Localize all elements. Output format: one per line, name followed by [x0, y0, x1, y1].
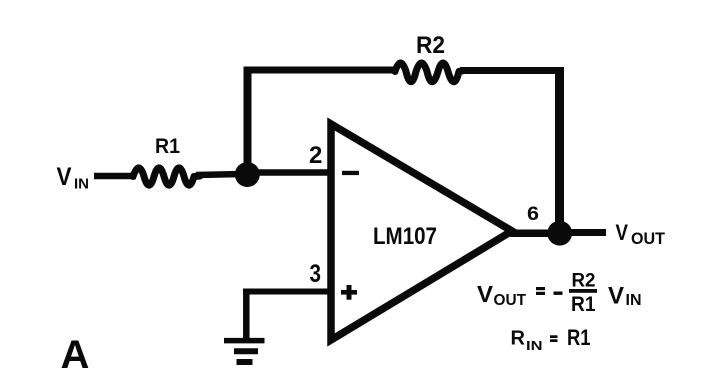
- wire input to R1: [94, 173, 136, 180]
- output junction node: [547, 221, 572, 246]
- resistor R2: [395, 32, 462, 82]
- wire op-amp output to node: [510, 229, 556, 237]
- inverting input marker (minus): [342, 171, 359, 175]
- formula gain equation V_OUT = -R2/R1 V_IN: [477, 271, 642, 317]
- svg-text:R1: R1: [155, 135, 180, 158]
- node V_OUT label: [616, 220, 666, 248]
- svg-text:OUT: OUT: [494, 292, 527, 309]
- non-inverting input marker (plus): [341, 285, 357, 300]
- svg-text:2: 2: [309, 142, 322, 169]
- wire junction up to feedback: [244, 67, 252, 178]
- wire R1 to summing node: [196, 174, 242, 175]
- node V_IN label: [57, 163, 90, 193]
- wire feedback top right segment: [460, 67, 564, 74]
- svg-text:A: A: [61, 333, 90, 376]
- wire pin 3 input: [243, 289, 332, 295]
- wire feedback down to output node: [555, 67, 564, 228]
- svg-text:V: V: [608, 283, 624, 310]
- svg-text:OUT: OUT: [631, 229, 666, 248]
- svg-text:IN: IN: [526, 338, 543, 353]
- svg-text:IN: IN: [626, 292, 642, 309]
- svg-text:6: 6: [527, 203, 539, 225]
- ground: [224, 341, 265, 362]
- svg-text:V: V: [616, 220, 629, 245]
- svg-text:IN: IN: [74, 176, 89, 193]
- summing junction node: [235, 162, 260, 187]
- svg-text:V: V: [477, 281, 494, 307]
- svg-text:3: 3: [310, 260, 322, 288]
- svg-text:R1: R1: [567, 325, 591, 350]
- wire summing node to pin 2: [250, 169, 332, 176]
- wire output node to V_OUT: [563, 229, 606, 236]
- formula input impedance R_IN = R1: [511, 325, 591, 353]
- svg-text:R: R: [511, 328, 526, 350]
- svg-text:LM107: LM107: [373, 223, 437, 250]
- svg-text:R1: R1: [571, 293, 596, 316]
- wire feedback top left segment: [244, 67, 398, 74]
- op-amp U1 triangle: [331, 124, 512, 340]
- svg-text:V: V: [57, 163, 72, 191]
- svg-text:R2: R2: [416, 32, 445, 59]
- wire down to ground: [243, 289, 250, 341]
- svg-text:R2: R2: [572, 271, 596, 292]
- resistor R1: [133, 135, 200, 185]
